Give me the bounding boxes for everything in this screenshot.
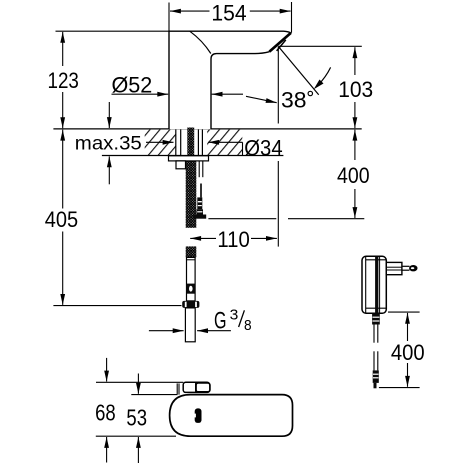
svg-text:400: 400	[391, 340, 425, 365]
svg-text:68: 68	[95, 399, 116, 425]
svg-text:405: 405	[45, 207, 78, 232]
svg-text:400: 400	[337, 163, 370, 188]
svg-text:3: 3	[230, 307, 239, 324]
svg-text:38: 38	[281, 88, 307, 113]
svg-text:123: 123	[48, 68, 79, 93]
svg-text:8: 8	[244, 317, 252, 334]
svg-text:Ø34: Ø34	[244, 136, 282, 161]
svg-text:110: 110	[217, 227, 249, 252]
svg-text:154: 154	[211, 0, 246, 25]
svg-text:103: 103	[338, 77, 373, 102]
svg-text:max.35: max.35	[75, 133, 142, 155]
svg-text:53: 53	[126, 405, 147, 431]
svg-text:G: G	[214, 307, 227, 334]
